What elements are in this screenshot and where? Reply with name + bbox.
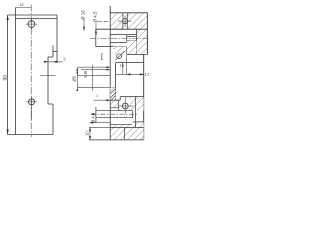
- bore line c3: [110, 41, 136, 43]
- hole circle top: [28, 21, 35, 28]
- bottom block top edge left: [110, 99, 120, 101]
- mid block left edge: [115, 63, 117, 101]
- label dia4.5 arrow: [95, 32, 97, 36]
- svg-text:Ø 16: Ø 16: [81, 10, 86, 20]
- bottom hole crosshair: [119, 97, 134, 113]
- mid block top edge: [116, 62, 144, 64]
- label dia16 arrow: [83, 27, 85, 31]
- bore counter left edge: [95, 29, 97, 46]
- svg-text:1: 1: [120, 64, 122, 68]
- dimension 5 arrowheads: [44, 61, 57, 63]
- slot end wall: [132, 111, 134, 118]
- bore centerline: [90, 38, 150, 40]
- svg-text:15: 15: [20, 3, 24, 7]
- hatch band below bore: [114, 47, 127, 55]
- plate left edge: [15, 8, 17, 135]
- hole top crosshair: [26, 19, 37, 30]
- leader arrowhead: [106, 99, 110, 101]
- svg-text:[: [: [101, 53, 103, 61]
- bore end wall: [136, 29, 138, 54]
- mid dimension line vertical: [76, 67, 78, 91]
- leader arrow at lower step: [94, 99, 111, 101]
- bottom block hatch right mid cell: [133, 122, 144, 128]
- step lower horizontal: [48, 103, 53, 105]
- dimension 90 arrowheads: [7, 15, 9, 134]
- lower right edge: [143, 55, 145, 140]
- svg-text:90: 90: [2, 75, 8, 81]
- svg-text:Ø5: Ø5: [72, 75, 77, 81]
- bottom block hatch lower band: [110, 125, 144, 140]
- slot left cap: [95, 107, 97, 123]
- top block top edge: [110, 12, 147, 14]
- plate top inner line: [16, 17, 58, 19]
- extension line from bore band: [126, 47, 128, 75]
- extension line mid upper: [78, 74, 111, 76]
- inner ledge line: [110, 107, 119, 109]
- leader pair upper line: [78, 66, 111, 68]
- leader pair arrowheads: [107, 66, 111, 70]
- dimension 5 line: [44, 61, 63, 63]
- plate top edge: [8, 14, 57, 16]
- mid dimension arrowheads: [76, 67, 78, 91]
- plate bottom edge: [8, 134, 53, 136]
- bottom block bottom edge: [89, 139, 144, 141]
- bore small line bottom: [127, 40, 137, 42]
- bottom band divider: [124, 127, 126, 139]
- right wall hatch: [137, 29, 148, 54]
- top hole crosshair: [118, 16, 132, 28]
- bore small line top: [127, 35, 137, 37]
- internal line left portion: [110, 124, 132, 126]
- dim 10 extension upper: [89, 126, 110, 128]
- top block bottom edge: [96, 28, 148, 30]
- bore line c2: [110, 34, 136, 36]
- bottom hole right wall: [131, 97, 133, 111]
- slot top line: [96, 110, 133, 112]
- bottom block hatch upper band: [110, 100, 118, 108]
- leader arrowhead at slot: [90, 122, 94, 124]
- label dia4.5 dimension line: [95, 23, 97, 36]
- plate recessed edge: [47, 57, 49, 104]
- svg-text:Ø 6: Ø 6: [83, 71, 88, 78]
- svg-text:Ø 4,5: Ø 4,5: [93, 11, 98, 23]
- hole circle bottom: [29, 99, 35, 105]
- datum cross line: [40, 74, 56, 76]
- small dim 1 arrow: [122, 63, 124, 74]
- dimension 90 line: [7, 15, 9, 135]
- extension line mid lower: [78, 87, 116, 89]
- bore small step wall: [126, 35, 128, 43]
- step upper horizontal: [53, 51, 57, 53]
- top hole circle: [123, 19, 128, 24]
- step edge at right wall: [127, 54, 148, 56]
- slot bottom line: [96, 117, 133, 119]
- bottom hole left wall: [117, 100, 119, 111]
- arrowhead on slot centerline: [93, 113, 96, 115]
- dim 10 arrowheads: [89, 127, 91, 139]
- bore band bottom: [96, 46, 127, 48]
- svg-text:Ø 4,5: Ø 4,5: [91, 112, 96, 123]
- top block right edge: [146, 13, 148, 55]
- bottom block step vertical: [119, 97, 121, 101]
- slot centerline: [91, 113, 137, 115]
- hatched nub above bottom block: [110, 88, 115, 101]
- leader line at slot: [89, 122, 110, 124]
- label dia16 dimension line: [83, 20, 85, 31]
- hatch cell right of small bore: [127, 41, 137, 55]
- top hole centerline left extension: [97, 20, 110, 22]
- dimension 17 arrowheads: [127, 73, 144, 75]
- vertical centerline: [30, 5, 32, 138]
- dim 10 line: [89, 127, 91, 139]
- mid dimension line second vertical: [92, 65, 94, 91]
- bottom band top line: [110, 126, 144, 128]
- diagonal leader through small circle: [115, 51, 124, 60]
- internal line right portion: [133, 121, 144, 123]
- top block left edge long line: [109, 6, 111, 100]
- inner wall vertical: [135, 97, 137, 128]
- small circle on step: [117, 54, 122, 59]
- bottom hole circle: [122, 103, 128, 109]
- top block extension line: [109, 6, 111, 13]
- plate right edge upper: [56, 15, 58, 63]
- bottom block left edge: [109, 100, 111, 140]
- hole bottom crosshair: [27, 97, 37, 121]
- step shelf horizontal: [48, 56, 53, 58]
- top block hatch left cell: [110, 13, 123, 29]
- dimension 17 line: [116, 73, 144, 75]
- svg-text:10: 10: [85, 131, 90, 136]
- step upper vertical: [52, 46, 54, 58]
- top block hatch right cell: [127, 13, 147, 29]
- top small dimension line: [16, 7, 32, 9]
- top hole left wall: [122, 13, 124, 29]
- plate right edge lower: [52, 104, 54, 135]
- svg-text:17: 17: [145, 72, 150, 77]
- bottom block hatch upper right cell: [130, 97, 144, 111]
- top hole right wall: [126, 13, 128, 29]
- bottom block top edge right: [120, 96, 144, 98]
- leader pair lower line: [81, 69, 110, 71]
- svg-text:1: 1: [96, 94, 98, 98]
